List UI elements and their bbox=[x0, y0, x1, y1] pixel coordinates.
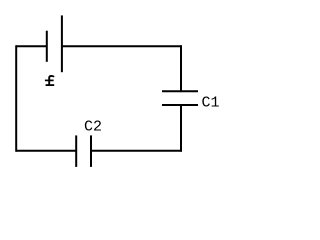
battery f bbox=[47, 15, 62, 72]
capacitor C1 bbox=[162, 91, 198, 105]
wire bottom-left segment bbox=[16, 150, 76, 152]
wire right lower segment bbox=[180, 105, 182, 152]
svg-text:C1: C1 bbox=[202, 95, 220, 112]
label f bbox=[45, 76, 54, 85]
wire top-right segment bbox=[62, 45, 182, 47]
wire bottom-right segment bbox=[91, 150, 182, 152]
wire top-left segment bbox=[16, 45, 47, 47]
svg-text:C2: C2 bbox=[84, 119, 102, 136]
capacitor C2 bbox=[76, 135, 91, 167]
wire right upper segment bbox=[180, 45, 182, 91]
wire left side bbox=[15, 45, 17, 151]
